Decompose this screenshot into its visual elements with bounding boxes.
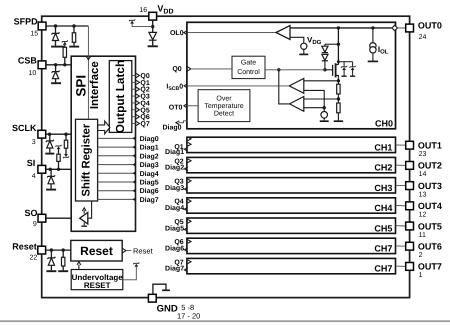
node Q1 output [132,81,136,83]
ground (CSB diode) [51,82,61,84]
svg-text:Diag2: Diag2 [165,164,184,172]
svg-text:14: 14 [419,171,427,178]
ground (Reset resistor) [58,270,68,272]
resistor (Reset pull) [62,250,64,257]
wire Undervoltage to Reset [78,265,80,270]
svg-text:SPI: SPI [73,75,88,97]
pin VDD (16) [149,12,157,20]
op-amp output buffer (OL0) [276,26,290,40]
svg-text:Detect: Detect [214,111,234,118]
ground (VDD diode) [148,45,158,47]
block Reset [71,240,122,261]
svg-text:SCLK: SCLK [12,123,37,133]
svg-text:OUT4: OUT4 [418,201,442,211]
node CSB junction [54,63,57,66]
svg-text:2: 2 [419,252,423,259]
node Q4 output [132,102,136,104]
svg-text:12: 12 [419,212,427,219]
pin OUT0 (24) [406,24,414,32]
zener (undervoltage ref) [133,262,139,264]
wire Diag2 into Shift Register [98,155,136,157]
node gate line junction [277,68,280,71]
node Q6 input [188,240,191,244]
wire CH5 to OUT5 [396,225,406,227]
svg-text:SO: SO [24,208,37,218]
wire SFPD net [46,25,88,27]
svg-text:Q7: Q7 [140,121,149,128]
svg-text:Reset: Reset [12,241,37,251]
svg-text:11: 11 [419,232,426,239]
svg-text:Output Latch: Output Latch [113,60,127,133]
diode gate clamp D1 [322,46,328,52]
node Q5 input [188,219,191,223]
svg-text:24: 24 [419,34,427,41]
zener (drain clamp 1) [343,62,345,67]
wire Diag6 into Shift Register [98,190,136,192]
wire VDD branch to clamp [132,24,153,27]
svg-text:CH1: CH1 [374,143,392,153]
diode (VDD to GND) [152,27,154,33]
node Diag0 output [178,121,187,123]
resistor sense R2 [337,99,339,103]
wire clamp branch [325,43,339,45]
svg-text:Diag5: Diag5 [140,179,159,187]
svg-text:GND: GND [157,304,178,315]
svg-text:OUT1: OUT1 [418,141,442,151]
node boundary diamond OUT0 [392,25,398,30]
wire Diag7 into Shift Register [98,198,136,200]
node Diag2 output [184,167,187,171]
svg-text:Reset: Reset [80,244,113,258]
svg-text:OUT2: OUT2 [418,161,442,171]
svg-text:CH7: CH7 [374,264,392,274]
block channel bar CH4 [187,198,396,213]
block channel bar CH7 [187,258,396,273]
voltage source comparator reference [323,108,325,112]
svg-text:Diag7: Diag7 [140,196,159,204]
svg-text:CH5: CH5 [374,223,392,233]
zener (internal ref, SFPD chain) [62,40,68,42]
svg-text:Shift Register: Shift Register [81,123,93,196]
zener ESD diode at CSB [55,65,57,72]
node Q3 input [188,179,191,183]
wire SCLK net [46,133,71,135]
node Diag4 output [184,207,187,211]
svg-text:Gate: Gate [241,60,256,67]
block channel bar CH1 [187,137,396,152]
pin OUT6 (2) [406,242,414,250]
zener ESD diode at Reset [50,250,52,258]
svg-text:22: 22 [30,255,38,262]
svg-text:Diag0: Diag0 [162,124,181,132]
node Reset-D junction [50,248,53,251]
svg-text:17 - 20: 17 - 20 [177,312,200,321]
resistor (SI chain) [57,154,60,161]
svg-text:CH4: CH4 [374,203,392,213]
svg-text:3: 3 [32,139,36,146]
wire CH7 to OUT6 [396,245,406,247]
svg-text:RESET: RESET [84,281,111,290]
wire comparator sense line [304,80,339,82]
zener ESD diode at SFPD [55,26,57,33]
svg-text:1: 1 [419,272,423,279]
pin GND (5-8, 17-20) [148,294,156,302]
svg-text:SFPD: SFPD [14,16,39,26]
node Q0 output [132,75,136,77]
block CH0 channel detail [187,22,396,129]
node ref junction [323,106,326,109]
ground (SI diode) [46,189,56,191]
voltage source VDG [301,43,307,49]
ground (Reset diode) [46,270,56,272]
node Q2 input [188,159,191,163]
svg-text:Temperature: Temperature [204,103,243,110]
wire Reset output [123,248,126,252]
svg-text:Reset: Reset [133,246,154,255]
node Q3 output [132,95,136,97]
node VDD junction [151,25,154,28]
node SCLK-D junction [48,133,51,136]
svg-text:CSB: CSB [18,55,38,65]
wire Q0 to Gate Control [191,68,232,70]
op-amp comparator 2 (current limit) [290,97,304,112]
wire drain vertical [337,28,339,65]
block Output Latch [109,61,132,133]
resistor (SFPD chain) [63,47,66,57]
node Q5 output [132,109,136,111]
resistor sense R1 [337,81,339,84]
svg-text:Diag3: Diag3 [140,161,159,169]
svg-text:4: 4 [32,173,36,180]
node SI-D junction [49,168,52,171]
svg-text:OUT5: OUT5 [418,221,442,231]
wire Diag1 into Shift Register [98,146,136,148]
svg-text:Diag1: Diag1 [140,144,159,152]
svg-text:CH3: CH3 [374,183,392,193]
wire CH7 to OUT7 [396,265,406,267]
op-amp block: SPI Interface box U1 [71,56,135,231]
block Gate Control [232,56,265,78]
node gate clamp junction [337,43,340,46]
wire outer IC border [42,16,410,297]
pin SFPD (15) [38,22,46,30]
wire comparator ref links [304,90,324,107]
svg-text:16: 16 [139,7,147,14]
svg-text:Q0: Q0 [172,66,181,73]
pin CSB (10) [38,61,46,69]
wire CSB net [46,64,71,66]
zener (VDD internal clamp) [129,19,135,21]
ground (VDG) [299,53,308,55]
node Q7 output [132,123,136,125]
svg-text:SI: SI [27,158,36,168]
wire Diag4 into Shift Register [98,172,136,174]
node SFPD-R junction [72,24,75,27]
svg-text:Diag7: Diag7 [165,265,184,273]
ground (reference) [320,120,329,122]
svg-text:OUT0: OUT0 [418,20,442,30]
svg-text:OT0: OT0 [169,104,183,111]
svg-text:Diag4: Diag4 [165,204,184,212]
zener ESD diode at SCLK [49,134,51,141]
pin OUT7 (1) [406,263,414,271]
node gate junction [323,68,326,71]
svg-text:Diag6: Diag6 [165,245,184,253]
svg-text:Control: Control [237,68,260,76]
svg-text:9: 9 [33,221,37,228]
wire CH1 to OUT1 [396,144,406,146]
transistor Q1 output NMOS [325,69,333,71]
wire Gate Control to gate [265,69,325,71]
ground (internal) [162,289,170,291]
svg-text:CH2: CH2 [374,163,392,173]
node Q6 output [132,116,136,118]
zener (drain clamp 2) [352,62,354,67]
block channel bar CH7 [187,238,396,253]
node Q4 input [188,199,191,203]
wire comparator2 to gate line [279,70,290,104]
block channel bar CH2 [187,157,396,172]
svg-text:Diag5: Diag5 [165,224,184,232]
svg-text:Diag4: Diag4 [140,170,159,178]
wire CH3 to OUT3 [396,184,406,186]
node Diag6 output [184,248,187,252]
node Diag7 output [184,268,187,272]
pin OUT5 (11) [406,222,414,230]
node Q1 input [188,142,191,146]
pin OUT1 (23) [406,141,414,149]
node CSB chain junction [63,63,66,66]
svg-text:CH7: CH7 [374,244,392,254]
svg-text:15: 15 [30,30,38,37]
wire OUT0 rail [290,27,392,29]
block Shift Register [76,119,98,201]
svg-text:23: 23 [419,151,427,158]
node divider mid [337,97,340,100]
wire SFPD into SPI block [87,56,89,120]
wire page rule (bottom artifact) [0,320,450,322]
node Diag1 output [184,147,187,151]
wire FET clamp rail [338,61,352,63]
pin OUT3 (13) [406,182,414,190]
zener (SCLK clamp, to ground) [63,156,69,158]
op-amp SO output buffer [80,212,88,224]
resistor (SFPD pull) [73,26,75,33]
wire SO net [46,217,80,219]
wire Undervoltage clamp branch [123,267,136,280]
block channel bar CH3 [187,178,396,193]
pin Reset (22) [38,246,46,254]
node SI chain junction [57,168,60,171]
wire Diag5 into Shift Register [98,181,136,183]
wire VDG branch [290,37,304,43]
pin SI (4) [38,165,46,173]
svg-text:OL0: OL0 [170,30,184,37]
ground (IOL) [368,60,378,62]
ground (SFPD resistor) [69,46,79,48]
svg-text:Diag1: Diag1 [165,148,184,156]
wire block arrow Shift Register to Output Latch [98,121,110,134]
svg-text:CH0: CH0 [375,118,393,128]
current source IOL [372,28,374,43]
svg-text:OUT6: OUT6 [418,242,442,252]
pin SCLK (3) [38,130,46,138]
svg-text:10: 10 [29,70,37,77]
wire OL0 to buffer [187,32,276,34]
ground (SCLK diode) [45,153,54,155]
wire Diag0 into Shift Register [98,137,136,139]
node IOL junction [371,26,374,29]
resistor (SCLK clamp) [65,134,67,140]
pin OUT2 (14) [406,162,414,170]
svg-text:Diag3: Diag3 [165,184,184,192]
node Reset-R junction [62,248,65,251]
wire buffer enable (bottom) [83,223,85,226]
svg-text:13: 13 [419,191,427,198]
diode gate clamp D2 [322,54,328,60]
svg-text:Interface: Interface [89,61,101,109]
wire SI net [46,168,71,170]
node Q7 input [188,260,191,264]
wire CH2 to OUT2 [396,164,406,166]
node source junction [337,79,340,82]
svg-text:Diag2: Diag2 [140,152,159,160]
svg-text:Over: Over [216,95,232,102]
wire VDD internal [152,20,154,27]
wire Reset net [46,249,71,251]
node Q2 output [132,88,136,90]
svg-text:OUT3: OUT3 [418,181,442,191]
node SCLK-R junction [64,133,67,136]
node drain junction [337,26,340,29]
pin SO (9) [38,214,46,222]
ground (SFPD diode) [51,46,64,48]
node Diag3 output [184,187,187,191]
block channel bar CH5 [187,218,396,233]
node CH1 extra input [188,137,191,141]
node Diag5 output [184,228,187,232]
pin OUT4 (12) [406,202,414,210]
wire ISCB0 [188,85,290,87]
zener ESD diode at SI [50,169,52,176]
ground (R2) [334,120,343,122]
wire CH4 to OUT4 [396,205,406,207]
node clamp rail junction [337,60,340,63]
wire comparator 2 sense [304,98,339,100]
op-amp comparator 1 (ISCB0) [289,79,304,94]
wire GND internal [153,284,166,294]
block Over Temperature Detect [198,90,250,122]
svg-text:Diag0: Diag0 [140,135,159,143]
wire Diag3 into Shift Register [98,164,136,166]
zener (internal ref, SI chain) [56,145,62,147]
svg-text:OUT7: OUT7 [418,262,442,272]
svg-text:Diag6: Diag6 [140,187,159,195]
block Undervoltage RESET [71,270,123,290]
wire buffer enable (top) [83,210,85,213]
node SFPD-D junction [54,24,57,27]
wire buffer to Shift Register [88,201,92,218]
